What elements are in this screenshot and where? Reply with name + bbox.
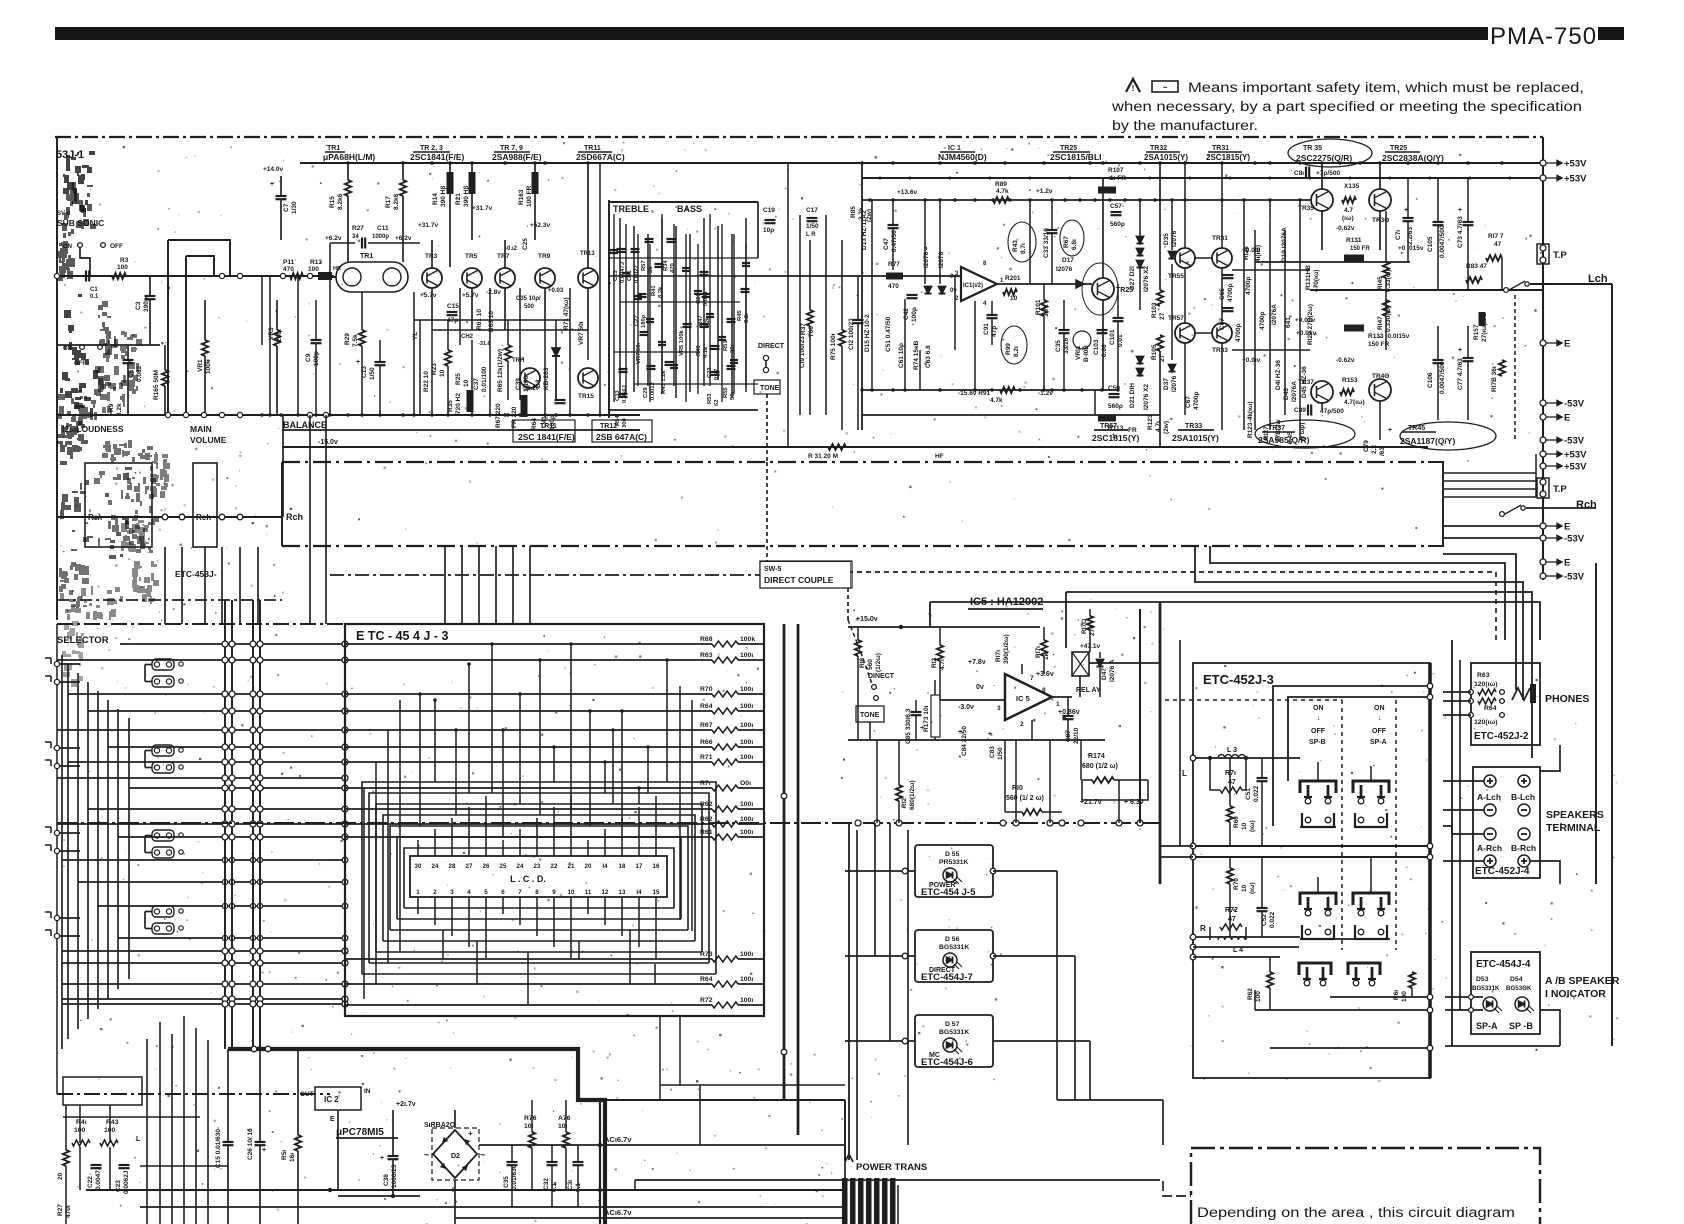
svg-text:500: 500 — [524, 304, 535, 310]
op-amp IC1 — [961, 267, 997, 301]
svg-text:ΗF: ΗF — [935, 453, 944, 460]
speaker terminals minus row2 — [1484, 828, 1496, 840]
svg-text:R3: R3 — [120, 257, 129, 264]
bottom left horizontals — [63, 1116, 200, 1118]
svg-text:Ι4: Ι4 — [602, 863, 608, 870]
wire input row — [57, 275, 334, 277]
svg-text:R123-4k(ιω): R123-4k(ιω) — [1247, 401, 1254, 438]
svg-text:+: + — [380, 1155, 384, 1162]
svg-text:C61 10ρ: C61 10ρ — [898, 343, 905, 368]
svg-text:SP-Β: SP-Β — [1309, 739, 1326, 746]
row3 connections — [1330, 996, 1430, 998]
svg-text:2SA1015(Y): 2SA1015(Y) — [1172, 433, 1219, 443]
bold ground bus — [228, 1049, 605, 1224]
wire into note box — [1150, 1180, 1191, 1196]
test point TP upper — [1537, 244, 1549, 264]
svg-text:R27: R27 — [352, 225, 364, 232]
svg-text:L 3: L 3 — [1227, 747, 1237, 754]
svg-text:TR 35: TR 35 — [1303, 145, 1322, 152]
svg-text:D27 D2Ι: D27 D2Ι — [1129, 266, 1136, 290]
svg-text:2SA988(F/E): 2SA988(F/E) — [492, 152, 542, 162]
board ETC-452J-2 phones — [1471, 663, 1540, 745]
svg-text:IC 1: IC 1 — [948, 145, 961, 152]
resistor R66 — [345, 746, 712, 748]
svg-text:6.8ι: 6.8ι — [1071, 239, 1078, 250]
svg-text:+53V: +53V — [1564, 462, 1587, 473]
svg-text:100ι: 100ι — [740, 686, 753, 693]
svg-text:56ι: 56ι — [730, 392, 736, 400]
svg-text:ACι6.7ν: ACι6.7ν — [604, 1135, 632, 1144]
svg-text:Ι2ωLOUDNESS: Ι2ωLOUDNESS — [62, 424, 124, 434]
svg-text:E: E — [1564, 558, 1570, 569]
svg-text:2SC2838A(Q/Y): 2SC2838A(Q/Y) — [1382, 153, 1444, 163]
svg-text:-2.8ν: -2.8ν — [486, 289, 501, 296]
svg-text:100ι: 100ι — [740, 829, 753, 836]
svg-text:2SC1815: 2SC1815 — [1092, 433, 1128, 443]
svg-text:470(ιω): 470(ιω) — [1313, 270, 1320, 292]
svg-text:R89: R89 — [995, 181, 1007, 188]
svg-text:C15: C15 — [447, 303, 459, 310]
svg-text:R107: R107 — [1108, 167, 1124, 174]
main bus 823 — [57, 822, 1160, 824]
svg-text:Ι2076Α: Ι2076Α — [1271, 304, 1278, 325]
svg-text:Means important safety item, w: Means important safety item, which must … — [1188, 80, 1584, 96]
svg-text:4.7ι: 4.7ι — [1155, 421, 1162, 432]
relay contacts row3 right — [1348, 963, 1380, 975]
svg-text:11: 11 — [585, 889, 592, 896]
resistor R61 — [345, 836, 712, 838]
wire nest B — [1210, 546, 1505, 640]
svg-text:34: 34 — [352, 234, 359, 240]
svg-text:by the manufacturer.: by the manufacturer. — [1112, 118, 1258, 134]
svg-text:390 Hβ: 390 Hβ — [440, 186, 447, 207]
svg-text:R68: R68 — [700, 636, 713, 643]
svg-text:470: 470 — [888, 283, 899, 290]
ic5 connecting verticals — [876, 740, 878, 823]
svg-text:0.022: 0.022 — [1269, 911, 1276, 928]
svg-text:Ι2076: Ι2076 — [923, 251, 930, 268]
svg-text:1: 1 — [416, 889, 420, 896]
svg-text:BALANCE: BALANCE — [283, 420, 327, 430]
svg-text:DΙRECT: DΙRECT — [758, 343, 785, 350]
svg-text:C38: C38 — [383, 1174, 390, 1186]
svg-text:C32: C32 — [543, 1178, 550, 1190]
svg-text:R64: R64 — [1484, 705, 1497, 712]
svg-text:1/50: 1/50 — [806, 223, 819, 230]
svg-text:TR31: TR31 — [1212, 145, 1229, 152]
svg-text:0.022: 0.022 — [1253, 785, 1260, 802]
svg-text:Ι2076: Ι2076 — [938, 251, 945, 268]
svg-text:4ι(ιω): 4ι(ιω) — [1255, 245, 1262, 262]
svg-text:100: 100 — [117, 264, 128, 271]
coil L4 — [1218, 937, 1245, 940]
band right stubs — [1443, 472, 1536, 474]
svg-text:C8ι: C8ι — [1294, 170, 1304, 177]
svg-text:RΙ0: RΙ0 — [1012, 785, 1023, 792]
svg-text:Rch: Rch — [1576, 499, 1597, 511]
svg-text:R41: R41 — [651, 285, 657, 296]
svg-text:D37: D37 — [1163, 378, 1170, 390]
svg-text:E: E — [1564, 522, 1570, 533]
row1 bottom wires — [1300, 826, 1336, 828]
svg-text:27: 27 — [466, 863, 473, 870]
svg-text:TR9: TR9 — [538, 253, 551, 260]
svg-text:R133 -0.0Ι15ν: R133 -0.0Ι15ν — [1368, 333, 1410, 340]
svg-text:4700ρ: 4700ρ — [1227, 284, 1234, 302]
svg-text:+6.2ν: +6.2ν — [395, 235, 412, 242]
svg-text:4.7(ιω): 4.7(ιω) — [1344, 399, 1365, 406]
switch Lch — [1504, 288, 1509, 293]
svg-text:ETC-452J-2: ETC-452J-2 — [1474, 731, 1529, 742]
svg-text:0.0047J: 0.0047J — [95, 1166, 102, 1190]
LCD display block — [410, 856, 667, 897]
svg-text:16ι: 16ι — [289, 1153, 296, 1162]
svg-text:CΗ2: CΗ2 — [461, 334, 474, 340]
svg-text:C57: C57 — [1110, 203, 1122, 210]
svg-text:10: 10 — [1241, 884, 1248, 892]
svg-text:100ι: 100ι — [740, 951, 753, 958]
transformer feed wires — [844, 1160, 846, 1178]
svg-text:560 (1/ 2 ω): 560 (1/ 2 ω) — [1006, 795, 1044, 802]
svg-text:1/30: 1/30 — [291, 201, 298, 214]
svg-text:OFF: OFF — [1311, 728, 1326, 735]
resistor R99 ellipse — [1001, 326, 1027, 364]
svg-text:C3: C3 — [135, 301, 142, 310]
svg-text:2k: 2k — [648, 266, 654, 273]
svg-text:-32.2ν: -32.2ν — [522, 386, 540, 392]
svg-text:R34: R34 — [663, 260, 669, 271]
svg-text:C47: C47 — [883, 238, 890, 250]
svg-text:IC 2: IC 2 — [324, 1095, 339, 1104]
terminal rail — [1542, 137, 1544, 580]
svg-text:C51: C51 — [1245, 788, 1252, 800]
svg-text:VR1: VR1 — [197, 359, 204, 372]
svg-text:E TC - 45 4 J - 3: E TC - 45 4 J - 3 — [356, 629, 448, 643]
relay contacts row1 left — [1300, 781, 1336, 793]
svg-text:ΙΝ: ΙΝ — [364, 1088, 371, 1095]
tone box wires — [619, 218, 621, 398]
svg-text:2.2: 2.2 — [1371, 445, 1378, 454]
smudge patches — [63, 151, 95, 212]
svg-text:10: 10 — [568, 889, 575, 896]
svg-text:VRΙ1: VRΙ1 — [1075, 345, 1082, 360]
svg-text:TR15: TR15 — [578, 393, 594, 400]
Rch band box — [282, 461, 1428, 463]
svg-text:IC 5: IC 5 — [1016, 694, 1030, 703]
svg-text:-0.62ν: -0.62ν — [1336, 225, 1355, 232]
resistor R70 — [345, 693, 712, 695]
svg-text:TR45: TR45 — [1408, 425, 1425, 432]
wire top border — [55, 136, 1543, 138]
selector switch clusters — [152, 659, 174, 670]
svg-text:OFF: OFF — [110, 243, 123, 250]
LCD wiring maze bottom closures — [404, 907, 674, 909]
switch TONE lower — [856, 706, 884, 722]
svg-text:↓: ↓ — [1317, 715, 1321, 722]
wires under selector — [345, 955, 915, 957]
svg-text:27: 27 — [1159, 312, 1166, 320]
svg-text:8.7ι: 8.7ι — [1020, 243, 1027, 254]
svg-text:L R: L R — [806, 232, 816, 238]
svg-text:22/10: 22/10 — [1073, 727, 1080, 744]
svg-text:2SB 647A(C): 2SB 647A(C) — [596, 432, 647, 442]
bottom vertical drops — [146, 1039, 148, 1224]
selector lower rows inside — [345, 1059, 660, 1061]
svg-text:+7.8ν: +7.8ν — [968, 659, 986, 666]
svg-text:YL: YL — [412, 332, 419, 340]
svg-text:2SC1815(Y): 2SC1815(Y) — [1206, 153, 1250, 162]
label TR37 2SA985 ellipse bottom — [1255, 420, 1355, 448]
svg-text:RΙ47: RΙ47 — [1377, 316, 1384, 330]
svg-text:(2w): (2w) — [1163, 421, 1170, 434]
indicator D57 MC board ETC-454J-6 — [915, 1015, 993, 1067]
svg-text:390(1/2ω): 390(1/2ω) — [1003, 634, 1010, 664]
svg-text:C3ι: C3ι — [567, 1180, 574, 1190]
svg-text:0.1: 0.1 — [90, 294, 99, 300]
svg-text:100k: 100k — [740, 636, 755, 643]
svg-text:R123: R123 — [1147, 414, 1154, 430]
wire nest F — [930, 602, 1540, 640]
selector bottom dash border — [57, 1093, 330, 1095]
relay contacts row1 right — [1353, 781, 1389, 793]
svg-text:30: 30 — [415, 863, 422, 870]
svg-text:8.2k: 8.2k — [658, 286, 664, 298]
svg-text:R55: R55 — [723, 387, 729, 398]
indicator D55 POWER board ETC-454J-5 — [915, 845, 993, 897]
svg-text:R99: R99 — [1005, 343, 1012, 355]
svg-text:C13: C13 — [361, 366, 368, 378]
svg-text:R64: R64 — [700, 976, 713, 983]
svg-text:0.0012: 0.0012 — [650, 382, 656, 400]
svg-text:3: 3 — [997, 705, 1001, 712]
speaker bottom right wire — [1530, 861, 1560, 884]
svg-text:100ι: 100ι — [740, 652, 753, 659]
svg-text:-53V: -53V — [1564, 436, 1585, 447]
svg-text:TR33: TR33 — [1185, 423, 1202, 430]
svg-text:680(1/2ω): 680(1/2ω) — [909, 780, 916, 810]
svg-text:R27: R27 — [57, 1204, 64, 1216]
svg-text:+52.3ν: +52.3ν — [530, 222, 550, 229]
svg-text:B-Ι0Β: B-Ι0Β — [1083, 345, 1090, 362]
svg-text:100ι: 100ι — [740, 703, 753, 710]
label POWER TRANS — [845, 1154, 853, 1162]
svg-text:OΝ: OΝ — [1374, 705, 1385, 712]
wire tone mid — [609, 275, 745, 277]
wire direct couple dashed — [848, 572, 1496, 640]
svg-text:ACι6.7ν: ACι6.7ν — [604, 1208, 632, 1217]
svg-text:TR25: TR25 — [1060, 145, 1077, 152]
svg-text:10: 10 — [439, 369, 446, 377]
svg-text:+: + — [958, 729, 962, 736]
svg-text:10: 10 — [1241, 822, 1248, 830]
svg-text:RΙ7Ο: RΙ7Ο — [1081, 619, 1088, 634]
junction dots rows — [260, 413, 263, 416]
svg-text:+15.0ν: +15.0ν — [856, 616, 878, 623]
svg-text:0.082: 0.082 — [136, 365, 143, 382]
svg-text:R71: R71 — [700, 754, 713, 761]
svg-text:R53: R53 — [707, 393, 713, 404]
svg-text:D2: D2 — [451, 1153, 460, 1160]
svg-text:R22 10: R22 10 — [423, 371, 430, 392]
svg-text:Ι2076: Ι2076 — [1171, 375, 1178, 392]
svg-text:TR35: TR35 — [1298, 205, 1314, 212]
svg-text:R75 100ι: R75 100ι — [830, 333, 837, 360]
svg-text:D21 DΙΗ: D21 DΙΗ — [1129, 383, 1136, 408]
svg-text:R157: R157 — [1473, 324, 1480, 340]
selector left wire bundle — [61, 655, 63, 1049]
svg-text:47: 47 — [1228, 779, 1236, 786]
inner wire loop A — [1273, 686, 1430, 826]
svg-text:R57: R57 — [641, 260, 647, 271]
svg-text:6: 6 — [501, 889, 505, 896]
svg-text:C59: C59 — [1108, 385, 1120, 392]
svg-text:TR1: TR1 — [360, 253, 373, 260]
svg-text:TR25: TR25 — [1390, 145, 1407, 152]
resistor R64 — [345, 983, 712, 985]
transistor TR31 — [1212, 248, 1232, 268]
relay coil — [1072, 652, 1089, 676]
svg-text:R63 10: R63 10 — [488, 311, 495, 332]
svg-text:300: 300 — [622, 418, 628, 428]
svg-text:2SA1015(Y): 2SA1015(Y) — [1144, 153, 1188, 162]
svg-text:C106: C106 — [1427, 372, 1434, 388]
svg-text:OFF: OFF — [1372, 728, 1387, 735]
svg-text:24: 24 — [517, 863, 524, 870]
svg-text:R15: R15 — [329, 196, 336, 208]
wire bus branch — [605, 1099, 845, 1101]
svg-text:+: + — [1388, 427, 1392, 434]
svg-text:D43: D43 — [1283, 388, 1290, 400]
speaker top right wire — [1540, 745, 1560, 771]
svg-text:C29: C29 — [643, 387, 649, 398]
svg-text:100k: 100k — [205, 359, 212, 374]
svg-text:C67: C67 — [1185, 396, 1192, 408]
svg-text:ETC-452J-4: ETC-452J-4 — [1475, 866, 1530, 877]
svg-text:100ι: 100ι — [740, 997, 753, 1004]
wire bottom mid verticals — [659, 1016, 661, 1100]
svg-text:A-Rch: A-Rch — [1477, 843, 1502, 853]
svg-text:PHONES: PHONES — [1545, 693, 1589, 705]
svg-text:R66: R66 — [700, 739, 713, 746]
svg-text:ιι: ιι — [924, 246, 928, 252]
wire output verticals — [1321, 163, 1323, 189]
svg-text:4700ρ: 4700ρ — [1193, 392, 1200, 410]
svg-text:R4ι: R4ι — [76, 1119, 87, 1126]
svg-text:+0.0ιν: +0.0ιν — [1242, 357, 1261, 364]
svg-text:CΙ9 100/23: CΙ9 100/23 — [799, 336, 806, 368]
svg-text:TR11: TR11 — [584, 145, 601, 152]
svg-text:R9: R9 — [108, 403, 115, 412]
svg-text:C42: C42 — [903, 308, 910, 320]
svg-text:C105: C105 — [1427, 236, 1434, 252]
svg-text:Rch: Rch — [286, 512, 303, 522]
svg-text:100ι: 100ι — [740, 801, 753, 808]
transistor TR57 — [1175, 323, 1195, 343]
svg-text:E: E — [330, 1116, 335, 1123]
driver dots — [1138, 198, 1141, 201]
switch SW ON-OFF subsonic — [78, 243, 83, 248]
indicator connecting wires — [845, 870, 915, 872]
svg-text:R67: R67 — [700, 722, 713, 729]
svg-text:8: 8 — [1042, 687, 1046, 694]
svg-text:+5.7ν: +5.7ν — [462, 292, 479, 299]
wire hf feedback — [282, 446, 1428, 448]
svg-text:R83 47: R83 47 — [1466, 263, 1487, 270]
terminal E b — [1540, 414, 1546, 420]
svg-text:+53V: +53V — [1564, 174, 1587, 185]
svg-text:TR57: TR57 — [1168, 315, 1184, 322]
svg-text:ON: ON — [63, 244, 72, 250]
terminal -53V b — [1540, 437, 1546, 443]
svg-text:Ι2076: Ι2076 — [1056, 266, 1073, 273]
switch Rch — [1500, 512, 1505, 517]
svg-text:560ρ: 560ρ — [1108, 403, 1123, 410]
svg-text:~: ~ — [480, 1150, 485, 1160]
svg-text:C5: C5 — [128, 369, 135, 378]
svg-text:4: 4 — [467, 889, 471, 896]
svg-text:26: 26 — [483, 863, 490, 870]
svg-text:TR32: TR32 — [1150, 145, 1167, 152]
svg-text:+: + — [470, 173, 474, 180]
relay contacts row2 right — [1353, 893, 1389, 905]
svg-text:BG53ΘΚ: BG53ΘΚ — [1506, 985, 1532, 992]
led D53 — [1483, 997, 1497, 1011]
svg-text:C17: C17 — [806, 207, 818, 214]
svg-text:-31.6: -31.6 — [478, 341, 491, 347]
wire rail mid — [862, 199, 1310, 201]
svg-text:R101: R101 — [1035, 299, 1042, 315]
svg-text:13: 13 — [619, 889, 626, 896]
svg-text:KB-263: KB-263 — [543, 367, 550, 390]
svg-text:SELECTOR: SELECTOR — [57, 635, 109, 646]
svg-text:0ν: 0ν — [950, 288, 957, 294]
inner wire loop B — [1288, 697, 1430, 781]
svg-text:-53V: -53V — [1564, 399, 1585, 410]
resistor R113 — [1098, 415, 1116, 422]
svg-text:R131ΗΒ: R131ΗΒ — [1305, 265, 1312, 290]
svg-text:9: 9 — [552, 889, 556, 896]
power transformer windings — [842, 1178, 848, 1224]
svg-text:C1: C1 — [90, 287, 98, 293]
svg-text:12: 12 — [602, 889, 609, 896]
svg-text:RΙ45: RΙ45 — [1377, 276, 1384, 290]
svg-text:ETC-452J-3: ETC-452J-3 — [1203, 672, 1274, 687]
indicator feed wires — [1445, 996, 1483, 998]
connector box bottom left — [63, 1077, 142, 1105]
svg-text:700: 700 — [808, 326, 815, 337]
svg-text:1: 1 — [1056, 701, 1060, 708]
safety warning triangle — [1126, 79, 1140, 92]
svg-text:4.7: 4.7 — [1344, 207, 1353, 214]
svg-text:641: 641 — [1285, 317, 1292, 328]
svg-text:+1.2ν: +1.2ν — [1036, 188, 1053, 195]
svg-text:Ι2076Α: Ι2076Α — [1291, 381, 1298, 402]
selector input terminals — [54, 661, 59, 666]
resistor R62 — [345, 823, 712, 825]
relay dashes — [1341, 700, 1343, 950]
wire ac row — [479, 1144, 845, 1146]
svg-text:1/50: 1/50 — [997, 747, 1004, 760]
bottom loop — [1270, 1047, 1430, 1049]
svg-text:R173 10ι: R173 10ι — [923, 705, 930, 732]
svg-text:R64: R64 — [700, 703, 713, 710]
svg-text:8.2ι: 8.2ι — [744, 313, 750, 323]
svg-text:IC1(ι/2): IC1(ι/2) — [963, 283, 983, 289]
relay contacts row2 left — [1300, 893, 1336, 905]
terminal E d — [1540, 559, 1546, 565]
svg-text:TR5: TR5 — [465, 253, 478, 260]
svg-text:T.P: T.P — [1553, 250, 1567, 261]
